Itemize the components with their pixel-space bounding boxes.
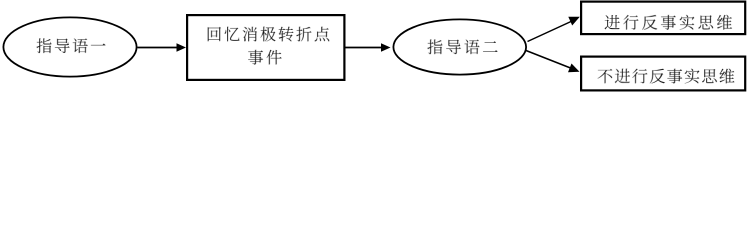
arrow 4 head	[568, 64, 580, 73]
text: 指导语二	[427, 39, 497, 54]
arrow 4 wire (down)	[526, 51, 571, 69]
arrow 3 wire (up)	[528, 22, 572, 42]
text: 不进行反事实思维	[598, 69, 735, 84]
arrow 1 wire	[138, 47, 178, 49]
arrow 3 head	[568, 17, 580, 26]
arrow 2 head	[381, 43, 391, 51]
ellipse: instruction 2	[393, 19, 526, 74]
arrow 2 wire	[346, 47, 384, 49]
arrow 1 head	[177, 43, 187, 51]
rect: recall negative turning point event	[187, 15, 344, 80]
ellipse: instruction 1	[3, 17, 136, 76]
text: 回忆消极转折点	[208, 27, 330, 42]
rect: no counterfactual thinking	[581, 57, 745, 91]
text: 进行反事实思维	[605, 15, 732, 30]
rect: do counterfactual thinking	[581, 2, 745, 35]
text: 指导语一	[36, 38, 105, 53]
text: 事件	[248, 50, 282, 65]
